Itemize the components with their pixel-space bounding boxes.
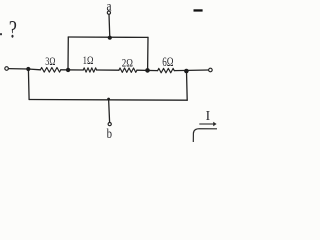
- svg-text:2Ω: 2Ω: [122, 56, 133, 70]
- svg-text:a: a: [107, 0, 113, 14]
- resistor 1Ω: [83, 68, 96, 72]
- wire parallel-branch right vertical: [147, 37, 149, 70]
- svg-text:b: b: [107, 126, 113, 141]
- wire node to resistor R1 3ohm: [28, 68, 40, 71]
- resistor 6Ω: [158, 68, 175, 72]
- wire 1Ω to 2Ω: [97, 69, 119, 71]
- svg-text:1Ω: 1Ω: [83, 53, 94, 67]
- junction node left: [26, 67, 30, 71]
- wire bottom rail: [29, 99, 187, 102]
- junction node right of 6Ω: [184, 69, 189, 74]
- period dot of cropped text at left edge: [0, 33, 2, 35]
- wire bottom-left vertical: [27, 69, 30, 100]
- wire 6Ω to right terminal: [174, 69, 208, 72]
- wire parallel-branch left vertical: [67, 37, 69, 70]
- wire parallel-branch top rail: [68, 36, 148, 38]
- terminal right open circle: [209, 68, 213, 72]
- terminal b open circle: [108, 123, 111, 126]
- junction node b on bottom rail: [107, 98, 110, 101]
- svg-text:6Ω: 6Ω: [162, 55, 173, 69]
- wire terminal a lead: [108, 14, 111, 37]
- resistor 3Ω: [40, 68, 60, 73]
- svg-text:?: ?: [9, 17, 17, 44]
- wire terminal b lead: [109, 99, 110, 123]
- terminal a open circle: [107, 11, 110, 14]
- resistor 2Ω: [119, 68, 137, 72]
- minus dash top right: [194, 9, 203, 11]
- wire 2Ω to 6Ω: [137, 69, 158, 71]
- svg-text:I: I: [206, 108, 211, 123]
- wire 3Ω to 1Ω: [61, 69, 83, 71]
- wire bottom-right vertical: [186, 71, 189, 100]
- terminal left open circle: [5, 67, 9, 71]
- svg-text:3Ω: 3Ω: [45, 54, 55, 68]
- junction node a on top rail: [108, 36, 112, 40]
- junction node between 2Ω and 6Ω: [145, 68, 150, 73]
- current arrow head: [213, 122, 216, 126]
- junction node between 3Ω and 1Ω: [66, 68, 70, 72]
- wire corner of next figure (bottom right): [193, 129, 217, 142]
- current arrow under I: [199, 123, 214, 125]
- wire left terminal to node: [9, 68, 29, 70]
